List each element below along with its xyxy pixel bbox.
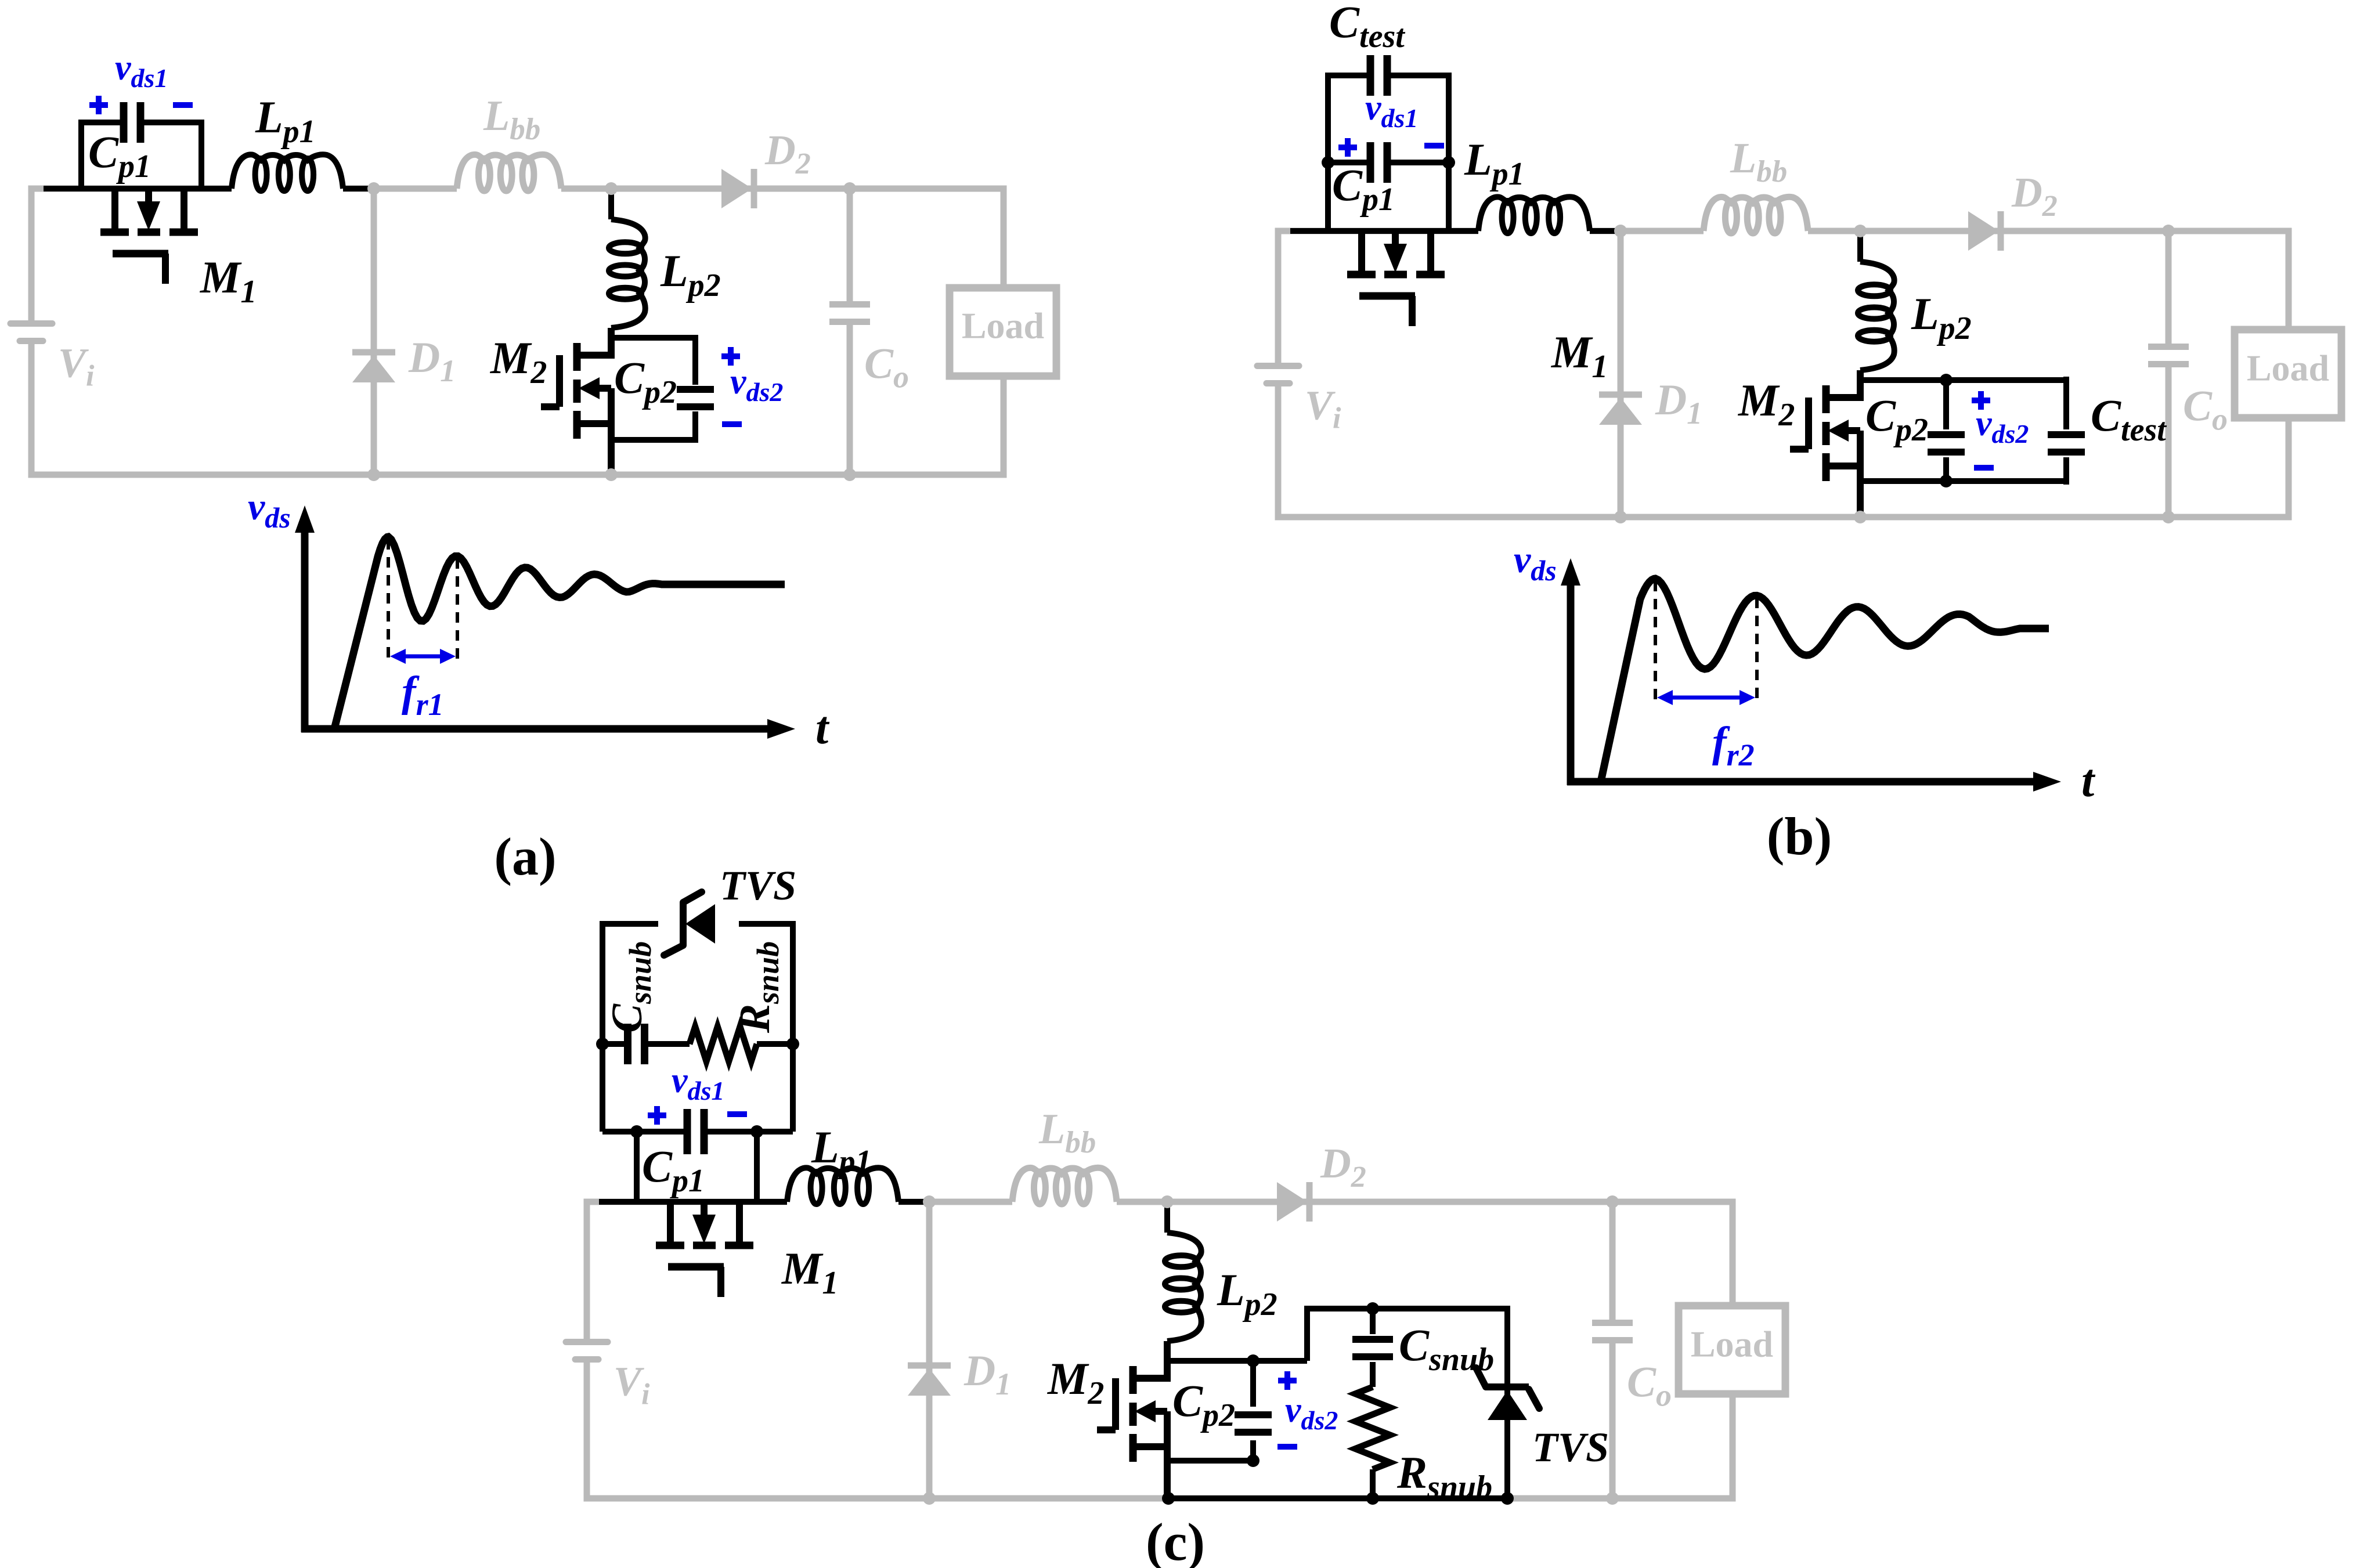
node bot-M2 (c) [1162,1492,1175,1505]
node bot-M2 (b) [1854,511,1867,523]
plus sign vds2 (a) [721,347,740,366]
wire Cp2 loop (a) [611,338,695,440]
node top-Co (a) [843,182,856,195]
wire Cp1 row (c) [602,1132,793,1202]
node top-Co (c) [1606,1195,1619,1208]
wire top rail black segment (b) [1290,228,1478,234]
wire left vertical (a) [28,186,35,478]
inductor Lp1 (a) [232,154,343,191]
node top-D1 (b) [1614,225,1627,237]
wire bottom rail (a) [31,472,1004,478]
wire Co branch (a) [847,189,853,475]
wire Cp2 loop (c) [1167,1361,1307,1461]
load box (a) [950,288,1056,376]
capacitor Cp1 (a) [124,102,140,143]
frequency arrow (b) [1657,690,1755,705]
label vds axis (b) [1514,539,1557,587]
wire D1 branch (b) [1618,231,1624,517]
inductor Lp1 (c) [787,1168,898,1204]
svg-text:TVS: TVS [720,862,796,909]
svg-text:(c): (c) [1146,1512,1205,1568]
transistor M1 (b) [1347,231,1445,326]
node bot-Co (a) [843,468,856,481]
svg-text:Load: Load [962,305,1044,346]
capacitor Cp2 (c) [1235,1415,1272,1432]
inductor Lp1 (b) [1478,197,1590,233]
label M2 (b) [1737,375,1795,433]
node Cp2-bot (b) [1940,475,1953,487]
label Lbb (b) [1730,135,1787,189]
label vds1 (b) [1365,88,1418,133]
label Cp2 (a) [614,352,677,410]
label Cp1 (b) [1332,160,1395,218]
waveform t-axis (a) [301,719,795,739]
frequency arrow (a) [390,649,456,664]
node top-D1 (a) [367,182,380,195]
node bot-D1 (a) [367,468,380,481]
label (a) [494,827,556,886]
label Lbb (c) [1038,1105,1096,1159]
node bot-Co (b) [2162,511,2175,523]
wire top rail black segment (c) [599,1199,787,1205]
minus sign vds1 (a) [173,102,193,108]
label Lp2 (a) [660,245,721,304]
label TVS left (c) [720,862,796,909]
minus sign vds2 (b) [1974,465,1994,471]
minus sign vds1 (c) [727,1111,747,1117]
capacitor Cp2 (a) [677,389,714,407]
label Vi (b) [1305,382,1341,435]
label M2 (a) [489,333,547,391]
label Vi (c) [613,1359,650,1411]
label TVS right (c) [1532,1424,1609,1471]
waveform curve (b) [1601,579,2049,782]
label Lp1 (c) [811,1122,872,1180]
wire D1 branch (a) [371,189,377,475]
svg-text:TVS: TVS [1532,1424,1609,1471]
node Cp1-right (c) [750,1125,763,1138]
wire bottom black segment (c) [1167,1495,1507,1501]
node Cp1-left (c) [630,1125,643,1138]
wire Load top (c) [1730,1199,1736,1306]
label D1 (c) [963,1347,1011,1401]
wire Lp1 right black segment (c) [898,1199,929,1205]
label vds2 (b) [1976,404,2029,449]
label Cp1 (c) [642,1141,705,1199]
wire Lp1 right black segment (a) [343,186,374,192]
capacitor Co (b) [2148,347,2189,364]
wire Cp2 stub (b) [1943,380,1949,481]
diode D2 (c) [1277,1182,1309,1222]
label D2 (a) [764,127,811,180]
wire Lp2 branch (a) [608,189,614,219]
svg-text:Load: Load [1691,1324,1773,1365]
node Cp2-bot (c) [1247,1454,1259,1467]
plus sign vds1 (a) [89,96,108,114]
label D2 (b) [2011,169,2058,223]
node bot-Rsnub (c) [1366,1492,1379,1505]
minus sign vds2 (c) [1277,1444,1297,1450]
node top-Co (b) [2162,225,2175,237]
label Ctest right (b) [2091,390,2167,448]
label vds1 (a) [115,48,168,93]
node bot-TVS (c) [1501,1492,1514,1505]
transistor M1 (a) [100,189,198,284]
plus sign vds2 (b) [1972,391,1990,410]
label fr1 (a) [402,668,444,722]
wire Cp2 stub (c) [1250,1361,1256,1461]
wire vds2 loop (b) [1860,380,2066,481]
node Cp2-top (b) [1940,374,1953,386]
capacitor Csnub left (c) [628,1024,645,1064]
load box (b) [2235,330,2341,418]
waveform curve (a) [334,537,785,729]
wire Lp1 right black segment (b) [1590,228,1621,234]
capacitor Ctest right (b) [2048,435,2085,452]
inductor Lbb (b) [1704,197,1808,233]
label Lp1 (b) [1464,134,1525,192]
wire top rail black segment (a) [44,186,232,192]
node top-D1 (c) [923,1195,936,1208]
wire Lp2 branch (c) [1164,1202,1170,1233]
label (c) [1146,1512,1205,1568]
label Ctest top (b) [1329,0,1405,55]
transistor M1 (c) [656,1202,753,1297]
diode D2 (b) [1968,211,2001,251]
label M2 (c) [1046,1353,1104,1411]
capacitor Csnub right (c) [1352,1339,1393,1357]
node bot-D1 (c) [923,1492,936,1505]
wire Load top (b) [2286,228,2292,330]
label Rsnub right (c) [1396,1447,1492,1505]
wire Cp1 row (b) [1328,162,1449,231]
wire bottom rail (c) [587,1495,1733,1502]
label vds1 (c) [672,1061,724,1105]
capacitor Co (c) [1592,1323,1633,1341]
label Cp2 (b) [1865,390,1928,448]
svg-text:t: t [815,703,830,754]
waveform y-axis (b) [1561,558,1580,785]
wire left vertical (b) [1275,228,1282,521]
node Cp2-top (c) [1247,1354,1259,1367]
diode D1 (c) [908,1365,951,1396]
label (b) [1767,807,1832,866]
wire Load bottom (c) [1730,1394,1736,1502]
label Lbb (a) [483,92,540,146]
resistor Rsnub right (c) [1355,1387,1390,1469]
transistor M2 (a) [541,328,611,475]
node bot-Co (c) [1606,1492,1619,1505]
wire Csnub branch (c) [1370,1309,1376,1498]
wire bottom rail (b) [1278,514,2289,521]
diode D1 (b) [1599,395,1642,425]
label Cp1 (a) [88,127,151,185]
node snub-right (c) [786,1038,799,1050]
label Csnub left (c) [603,941,658,1033]
label Vi (a) [58,340,95,393]
wire Load top (a) [1001,186,1007,288]
label Load (a) [962,305,1044,346]
TVS diode left (c) [664,892,715,955]
svg-text:(a): (a) [494,827,556,886]
node bot-D1 (b) [1614,511,1627,523]
wire Cp1 loop (a) [81,122,201,189]
svg-text:Load: Load [2247,348,2329,389]
node snub-top (c) [1366,1302,1379,1315]
label D1 (b) [1655,376,1702,431]
wire snubber rect left (c) [602,924,793,1132]
svg-text:(b): (b) [1767,807,1832,866]
node top-Lp2 (c) [1161,1195,1174,1208]
plus sign vds1 (b) [1338,138,1357,157]
load box (c) [1679,1306,1785,1394]
plus sign vds1 (c) [648,1106,666,1125]
inductor Lbb (a) [457,154,561,191]
label t axis (b) [2081,756,2096,807]
label Csnub right (c) [1399,1320,1494,1378]
wire Co branch (b) [2166,231,2172,517]
waveform period dashes (a) [388,539,457,663]
label Rsnub left (c) [731,941,785,1034]
battery Vi (c) [566,1342,608,1360]
waveform t-axis (b) [1567,772,2061,792]
wire top rail (a) [31,186,1004,192]
capacitor Cp1 (b) [1370,142,1387,183]
label M1 (a) [199,252,257,310]
node Cp1-left (b) [1322,156,1334,169]
transistor M2 (c) [1097,1341,1167,1498]
wire Load bottom (a) [1001,376,1007,478]
waveform y-axis (a) [295,505,315,732]
TVS diode right (c) [1476,1368,1539,1420]
capacitor Co (a) [829,305,870,322]
label Co (a) [864,340,909,395]
label vds2 (a) [730,362,783,407]
inductor Lp2 (c) [1165,1233,1201,1341]
battery Vi (b) [1257,366,1299,384]
minus sign vds2 (a) [722,421,742,427]
label D1 (a) [408,334,456,388]
label Co (c) [1627,1359,1672,1413]
wire Ctest right vertical (b) [2063,377,2069,485]
inductor Lp2 (b) [1858,262,1894,370]
diode D1 (a) [352,352,395,382]
wire Co branch (c) [1609,1202,1616,1498]
wire D1 branch (c) [926,1202,933,1498]
label M1 (b) [1550,327,1608,385]
label Cp2 (c) [1172,1375,1235,1433]
label Lp2 (b) [1911,288,1972,346]
inductor Lbb (c) [1012,1168,1117,1204]
transistor M2 (b) [1790,370,1860,517]
wire Load bottom (b) [2286,418,2292,521]
label vds2 (c) [1285,1390,1338,1435]
inductor Lp2 (a) [609,219,645,328]
wire top rail (c) [587,1199,1733,1205]
label vds axis (a) [248,486,291,534]
node top-Lp2 (b) [1854,225,1867,237]
label Load (b) [2247,348,2329,389]
wire snubber rect right (c) [1307,1309,1507,1498]
capacitor Ctest top (b) [1370,55,1387,96]
wire Lp2 branch (b) [1857,231,1863,262]
wire left vertical (c) [584,1199,590,1502]
minus sign vds1 (b) [1424,143,1444,149]
waveform period dashes (b) [1655,581,1757,704]
label Load (c) [1691,1324,1773,1365]
label Lp1 (a) [255,92,316,150]
node snub-left (c) [596,1038,609,1050]
label Co (b) [2183,382,2228,437]
node bot-M2 (a) [605,468,618,481]
label Lp2 (c) [1217,1264,1277,1323]
battery Vi (a) [10,324,52,341]
node Cp1-right (b) [1442,156,1455,169]
diode D2 (a) [721,169,754,208]
wire Ctest loop (b) [1328,75,1449,162]
capacitor Cp1 (c) [687,1109,704,1154]
node top-Lp2 (a) [605,182,618,195]
wire top rail (b) [1278,228,2289,234]
wire Csnub-Rsnub row (c) [602,1041,793,1047]
label D2 (c) [1320,1140,1366,1194]
plus sign vds2 (c) [1278,1371,1297,1390]
label fr2 (b) [1712,718,1755,772]
resistor Rsnub left (c) [690,1027,757,1061]
label t axis (a) [815,703,830,754]
label M1 (c) [781,1243,838,1301]
svg-text:t: t [2081,756,2096,807]
capacitor Cp2 (b) [1928,435,1965,452]
